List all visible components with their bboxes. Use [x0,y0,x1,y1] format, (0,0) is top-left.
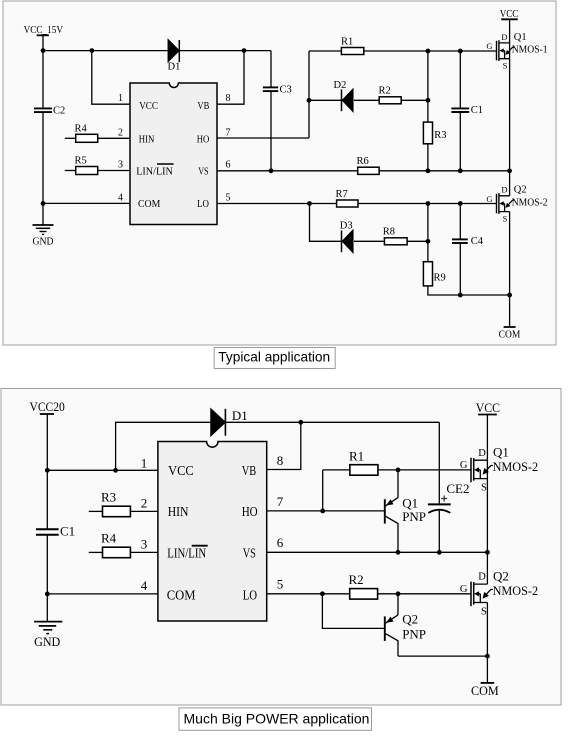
svg-text:G: G [460,460,468,471]
resistor R1 [341,36,364,54]
svg-text:VCC: VCC [168,464,194,479]
resistor R5 [65,156,130,175]
wire D2 branch [309,99,341,101]
svg-text:R2: R2 [349,572,364,587]
svg-text:D1: D1 [168,62,181,73]
wire Q2 source down to COM [509,212,511,295]
node junction at 398,469.9 [396,468,401,473]
resistor R2 [379,86,402,104]
node junction at 427.9,51 [426,49,431,54]
pin number 2 [141,495,148,510]
wire Q1 source down to VS [486,479,488,553]
svg-text:1: 1 [118,93,123,104]
pin number 7 [277,494,284,509]
wire R2 to rail [401,99,428,101]
wire D1 branch riser [116,422,211,470]
wire HO pin7 [217,137,309,139]
resistor R3 [423,122,446,144]
wire Q2 PNP collector to COM rail [398,655,487,657]
svg-text:VB: VB [242,464,257,479]
node junction at 398,593.8 [396,591,401,596]
svg-text:COM: COM [138,198,161,210]
wire R1 riser [322,470,324,511]
svg-text:C2: C2 [53,106,65,117]
svg-text:C1: C1 [471,105,483,116]
svg-text:3: 3 [141,536,148,551]
node junction at 322.4,593.8 [320,591,325,596]
svg-text:R8: R8 [383,227,395,238]
node junction at 509.6,295 [507,293,512,298]
pin number 6 [226,160,231,171]
resistor R8 [383,227,407,245]
svg-text:4: 4 [141,578,148,593]
wire R9 bottom to COM rail [428,286,510,295]
node junction at 47.3,593.9 [45,592,50,597]
wire Q2 drain up to VS [486,552,488,584]
diode D2 [334,80,353,111]
wire pin1 rail [47,469,158,471]
ground GND [34,594,62,649]
node junction at 427.9,203.5 [426,201,431,206]
pin number 1 [118,93,123,104]
svg-text:8: 8 [277,453,284,468]
resistor R4 [65,123,130,142]
svg-text:Q2: Q2 [514,185,527,196]
wire D3 to R8 [354,240,384,242]
pin number 3 [141,536,148,551]
svg-text:VS: VS [243,547,256,562]
pin number 3 [118,160,123,171]
svg-text:D2: D2 [334,80,347,91]
wire pin 8 to top rail [217,51,244,105]
svg-text:G: G [460,584,468,595]
diode D1 [211,408,248,436]
svg-text:R4: R4 [75,123,88,134]
svg-text:8: 8 [226,93,231,104]
svg-text:HIN: HIN [168,505,189,520]
svg-text:R4: R4 [101,531,117,546]
node junction at 309.5,203.5 [307,201,312,206]
node junction at 43,50.6 [41,48,46,53]
node junction at 309,100.3 [307,98,312,103]
svg-text:7: 7 [226,127,231,138]
wire Q2 source down to COM [486,603,488,657]
wire VB pin8 riser [267,422,301,469]
svg-text:VB: VB [197,100,209,112]
svg-text:LIN/LIN: LIN/LIN [136,166,173,178]
node junction at 271,170.8 [269,168,274,173]
transistor Q1 PNP [385,470,426,552]
pin number 6 [277,535,284,550]
svg-text:G: G [486,41,492,51]
node junction at 115.6,470.3 [113,468,118,473]
caption Typical application [214,348,335,369]
wire VS pin6 line [217,170,510,172]
schematic frame 1 [3,1,556,345]
svg-text:R9: R9 [434,272,446,283]
capacitor CE2 polarized [428,422,470,552]
pin number 5 [277,577,284,592]
transistor Q2 NMOS-2 [460,568,538,617]
node junction at 300.8,422.3 [298,420,303,425]
svg-text:D: D [478,448,486,459]
transistor Q1 NMOS-1 [486,32,547,71]
node junction at 460.3,295 [458,293,463,298]
svg-text:D: D [501,185,507,195]
transistor Q2 PNP [322,594,426,656]
svg-text:PNP: PNP [402,626,426,641]
power COM bottom [471,656,499,698]
pin number 5 [226,192,231,203]
wire gate line upper [323,469,471,471]
svg-text:HIN: HIN [139,134,155,146]
capacitor C3 [263,51,292,171]
node junction at 427.9,170.8 [426,168,431,173]
capacitor C2 [34,51,65,204]
svg-text:S: S [481,483,487,494]
svg-text:NMOS-2: NMOS-2 [493,459,538,474]
node junction at 487.4,552.3 [485,550,490,555]
svg-text:CE2: CE2 [446,481,469,496]
svg-text:R1: R1 [341,36,353,47]
ground GND [33,203,54,247]
svg-text:NMOS-2: NMOS-2 [493,583,538,598]
svg-text:Q1: Q1 [402,495,418,510]
node junction at 322.7,510.9 [320,509,325,514]
wire top rail [43,50,168,52]
wire vertical HO riser [308,51,310,138]
svg-text:G: G [486,194,492,204]
node junction at 47.3,470.3 [45,468,50,473]
svg-text:D1: D1 [232,408,248,423]
svg-text:VS: VS [198,166,208,178]
resistor R7 [336,189,359,207]
svg-text:COM: COM [471,683,499,698]
svg-text:GND: GND [34,634,60,649]
svg-text:S: S [503,60,508,70]
svg-text:D: D [478,572,486,583]
wire Q2 drain up to VS [509,171,511,196]
svg-text:VCC: VCC [139,100,158,112]
node junction at 509.6,170.8 [507,168,512,173]
wire to pin 1 [92,51,130,105]
svg-text:R1: R1 [349,448,364,463]
svg-text:LO: LO [197,198,209,210]
wire LO pin5 [267,593,471,595]
svg-text:LO: LO [243,588,257,603]
resistor R1 [349,448,378,475]
node junction at 427.9,100.3 [426,98,431,103]
svg-text:R5: R5 [75,156,87,167]
diode D1 [168,40,181,73]
svg-text:Much Big POWER application: Much Big POWER application [184,710,370,726]
pin number 4 [118,192,123,203]
resistor R3 [89,490,158,517]
svg-text:COM: COM [499,330,521,341]
net VCC_15V [24,25,64,51]
svg-text:R6: R6 [357,156,369,167]
capacitor C1 [36,470,75,594]
caption Much Big POWER application [179,708,372,730]
wire D3 branch [310,204,342,242]
schematic frame 2 [1,389,561,706]
wire VS pin6 [267,551,488,553]
svg-text:Q2: Q2 [493,568,509,583]
pin number 1 [141,455,148,470]
power COM bottom [499,295,521,341]
svg-text:PNP: PNP [402,509,426,524]
node junction at 460.3,170.8 [458,168,463,173]
node junction at 460.3,203.5 [458,201,463,206]
svg-text:S: S [503,213,508,223]
net VCC20 [30,399,65,470]
wire HO pin7 [267,510,385,512]
node junction at 398,552.3 [396,550,401,555]
svg-text:Typical application: Typical application [218,350,330,365]
node junction at 439.3,552.3 [437,550,442,555]
op-amp U2 IC body [158,442,267,622]
wire rail R3 top [427,51,429,122]
resistor R2 [349,572,378,599]
svg-text:NMOS-2: NMOS-2 [512,198,548,209]
wire D1 to VB node [225,421,439,423]
svg-text:2: 2 [118,127,123,138]
power VCC top [500,9,519,43]
wire gate drive R1 line [309,50,497,52]
wire R8 to rail [407,240,428,242]
node junction at 427.9,241.3 [426,239,431,244]
pin number 8 [226,93,231,104]
svg-text:R3: R3 [101,490,116,505]
svg-text:S: S [481,606,487,617]
svg-text:VCC: VCC [476,400,500,415]
op-amp U1 IC body [130,83,217,225]
svg-text:1: 1 [141,455,148,470]
pin number 2 [118,127,123,138]
svg-text:VCC20: VCC20 [30,399,65,414]
wire R3 bottom to VS [427,144,429,171]
node junction at 487.4,656.1 [485,654,490,659]
svg-text:GND: GND [33,237,54,248]
svg-text:HO: HO [197,134,210,146]
svg-text:4: 4 [118,192,123,203]
svg-text:R2: R2 [379,86,391,97]
node junction at 91.8,50.6 [89,48,94,53]
node junction at 43,203.4 [41,201,46,206]
svg-text:5: 5 [226,192,231,203]
svg-text:6: 6 [226,160,231,171]
wire Q1 source down to VS [509,59,511,171]
svg-text:3: 3 [118,160,123,171]
power VCC top [476,400,500,462]
svg-text:5: 5 [277,577,284,592]
wire LO pin5 / R7 line [217,203,497,205]
svg-text:COM: COM [167,588,196,603]
wire rail between R7 and R9 [427,204,429,262]
wire COM pin4 to left rail [43,202,130,204]
wire D2 to R2 [354,99,379,101]
svg-text:D: D [501,32,507,42]
svg-text:Q2: Q2 [402,612,418,627]
transistor Q1 NMOS-2 [460,444,538,493]
svg-text:R7: R7 [336,189,348,200]
svg-text:C4: C4 [471,236,484,247]
capacitor C1 [451,51,483,171]
resistor R4 [89,531,158,558]
svg-text:C1: C1 [60,524,75,539]
svg-text:Q1: Q1 [493,444,509,459]
svg-text:R3: R3 [434,130,446,141]
transistor Q2 NMOS-2 [486,185,547,224]
pin number 4 [141,578,148,593]
svg-text:NMOS-1: NMOS-1 [512,45,548,56]
svg-text:6: 6 [277,535,284,550]
svg-text:Q1: Q1 [514,32,527,43]
svg-text:2: 2 [141,495,148,510]
pin number 7 [226,127,231,138]
resistor R9 [423,262,445,286]
resistor R6 [357,156,380,174]
wire after D1 [179,50,271,52]
svg-text:LIN/LIN: LIN/LIN [167,547,206,562]
svg-text:7: 7 [277,494,284,509]
node junction at 460.3,51 [458,49,463,54]
node junction at 244,50.6 [242,48,247,53]
diode D3 [340,221,353,253]
svg-text:VCC_15V: VCC_15V [24,25,64,36]
wire COM pin4 to left rail [47,593,158,595]
capacitor C4 [452,204,484,296]
svg-text:D3: D3 [340,221,353,232]
svg-text:C3: C3 [280,85,292,96]
svg-text:HO: HO [242,505,258,520]
pin number 8 [277,453,284,468]
